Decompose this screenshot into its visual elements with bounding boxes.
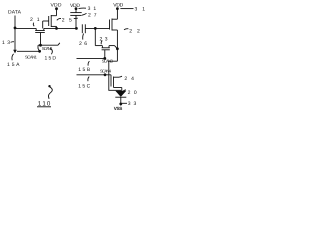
diode D20 OLED cathode bar — [115, 96, 126, 98]
leader tick after label 25 — [74, 17, 78, 19]
junction dot DATA/W1 — [14, 27, 17, 30]
wire : scan line D y75 — [77, 74, 112, 76]
svg-text:2 6: 2 6 — [79, 41, 87, 47]
wire : scan line C y58 — [77, 57, 105, 59]
svg-text:2 2: 2 2 — [129, 28, 140, 34]
leader for label 15B — [88, 61, 89, 65]
leader for label 21 — [32, 23, 35, 27]
svg-text:VDD: VDD — [70, 3, 80, 9]
wire : scan line B y51 — [17, 50, 40, 52]
leader for label 22 — [124, 29, 128, 30]
leader for label 15D — [50, 48, 52, 54]
svg-text:3 1: 3 1 — [135, 7, 146, 13]
junction dot VDD3 — [116, 7, 119, 10]
svg-text:VSS: VSS — [114, 106, 123, 111]
wire : drop from node to Q23 — [94, 28, 96, 45]
leader for label 27 — [82, 13, 87, 15]
svg-text:3 1: 3 1 — [88, 6, 97, 12]
svg-text:1 5 B: 1 5 B — [78, 67, 91, 73]
transistor Q22 — [109, 20, 111, 30]
leader for label 24 — [119, 76, 122, 77]
junction dot scanC end — [103, 57, 106, 60]
svg-text:1 5 A: 1 5 A — [7, 62, 20, 68]
leader for label 26 — [82, 34, 85, 40]
junction dot VDD2 — [75, 7, 78, 10]
svg-text:2 3: 2 3 — [100, 37, 108, 43]
junction dot rail — [116, 47, 119, 50]
svg-text:2 7: 2 7 — [88, 12, 97, 18]
junction dot C27 bottom — [75, 27, 78, 30]
svg-text:1 1 0: 1 1 0 — [38, 100, 51, 107]
leader for label 13 — [11, 41, 14, 44]
leader for label 15C — [88, 77, 89, 82]
leader for label 23 — [101, 41, 102, 45]
svg-text:2 0: 2 0 — [128, 90, 137, 96]
svg-text:1 5 D: 1 5 D — [45, 55, 57, 61]
svg-text:SCAN1: SCAN1 — [25, 54, 38, 59]
transistor Q25 — [48, 16, 50, 26]
wire : DATA vertical line 13 — [14, 16, 16, 51]
wire : W1 between Q21 and Q25 — [44, 27, 77, 29]
transistor Q24 — [110, 78, 112, 87]
junction dot scanD — [104, 73, 107, 76]
svg-text:SCAN2: SCAN2 — [42, 46, 53, 51]
transistor Q21 — [35, 28, 37, 30]
leader for label 15A — [12, 54, 14, 60]
leader for label 20 — [122, 90, 126, 92]
leader for label 31b — [120, 8, 133, 10]
junction dot scanA — [39, 44, 42, 47]
svg-text:SCAN4: SCAN4 — [100, 69, 112, 74]
wire : main node wire W1 left — [15, 27, 36, 29]
junction dot scanB — [38, 50, 41, 53]
svg-text:DATA: DATA — [8, 10, 22, 16]
junction dot Q25 drain — [55, 27, 58, 30]
wire : elbow and bypass down to OLED anode — [109, 61, 122, 90]
svg-text:VDD: VDD — [113, 3, 123, 9]
pointer squiggle to 110 — [48, 87, 52, 99]
capacitor C26 plates — [81, 24, 83, 33]
svg-text:2 1: 2 1 — [30, 17, 40, 23]
figure number 110 underlined — [38, 100, 51, 107]
diode D20 triangle — [115, 91, 126, 97]
leader for label 25 — [57, 18, 61, 20]
svg-text:2 5: 2 5 — [62, 17, 72, 23]
svg-text:2 4: 2 4 — [124, 76, 134, 82]
leader for label 31a — [79, 7, 87, 10]
underline of 110 — [37, 106, 51, 108]
wire : rail below Q22 — [116, 30, 118, 61]
junction dot VDD1 — [55, 7, 58, 10]
arrowhead DATA down — [13, 50, 17, 54]
junction dot node right — [94, 27, 97, 30]
wire : scan line A y45 — [38, 44, 58, 46]
leader for label 33 — [122, 102, 127, 104]
svg-text:VDD: VDD — [51, 3, 62, 9]
capacitor C27 — [75, 9, 77, 13]
transistor Q23 — [101, 46, 103, 48]
svg-text:SCAN3: SCAN3 — [102, 59, 114, 64]
svg-text:1 5 C: 1 5 C — [78, 84, 90, 90]
svg-text:3 3: 3 3 — [128, 101, 137, 107]
svg-text:1 3: 1 3 — [2, 40, 10, 46]
wire : W1 right segment to Q22 gate — [85, 27, 109, 29]
junction dot cathode — [119, 103, 122, 106]
